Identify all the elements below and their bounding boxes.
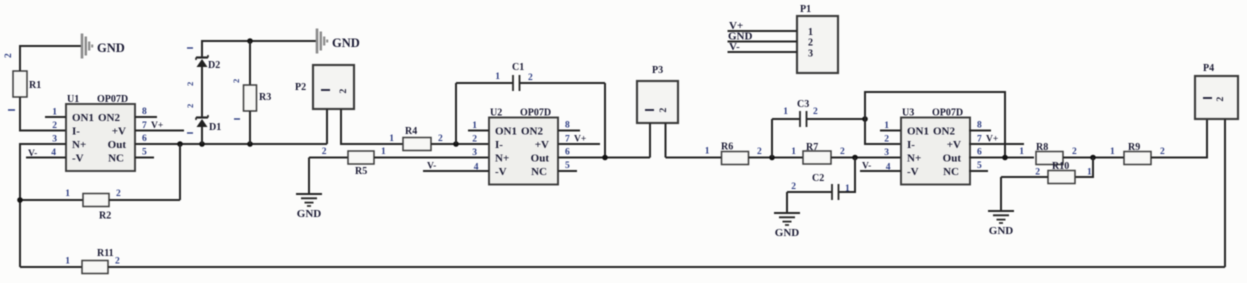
svg-text:2: 2 <box>116 189 121 199</box>
wire R6 to R7 <box>749 157 804 159</box>
svg-text:2: 2 <box>1035 168 1040 178</box>
svg-text:N+: N+ <box>72 139 86 151</box>
svg-text:+V: +V <box>947 139 961 151</box>
svg-text:R11: R11 <box>97 248 114 259</box>
resistor R2 (feedback) <box>20 199 83 201</box>
svg-text:2: 2 <box>4 53 14 58</box>
svg-text:I-: I- <box>72 126 80 138</box>
wire R5 to ground <box>308 158 310 195</box>
wire R2 up to output <box>179 144 181 200</box>
svg-text:R3: R3 <box>259 92 271 103</box>
svg-text:1: 1 <box>783 107 788 117</box>
junction dot top wire <box>247 38 253 44</box>
wire R9 to P4 <box>1151 119 1207 158</box>
svg-text:Out: Out <box>108 139 127 151</box>
junction dot U3 pin2 branch <box>862 116 868 122</box>
svg-text:2: 2 <box>1072 147 1077 157</box>
resistor R4 <box>403 138 431 151</box>
wire U3 output to R8 <box>969 157 1034 159</box>
resistor R5 <box>309 157 348 159</box>
svg-text:C2: C2 <box>812 173 824 184</box>
svg-text:U2: U2 <box>490 108 502 119</box>
connector P3 <box>637 81 678 123</box>
svg-text:R8: R8 <box>1036 142 1048 153</box>
svg-text:3: 3 <box>808 49 813 60</box>
svg-text:2: 2 <box>791 182 796 192</box>
power ground GND (below R10) <box>988 210 1014 212</box>
U1 pin5 stub <box>135 157 154 159</box>
svg-text:U3: U3 <box>902 108 914 119</box>
P2 pin1 wire <box>326 109 328 144</box>
svg-text:8: 8 <box>977 121 982 131</box>
svg-text:2: 2 <box>840 147 845 157</box>
svg-text:5: 5 <box>565 161 570 171</box>
junction dot R3 branch <box>247 141 253 147</box>
svg-text:1: 1 <box>1087 168 1092 178</box>
svg-text:6: 6 <box>565 148 570 158</box>
junction dot R10 branch <box>1090 155 1096 161</box>
resistor R7 <box>803 151 831 164</box>
svg-text:NC: NC <box>531 166 547 178</box>
power ground GND (below C2) <box>774 212 800 214</box>
junction dot feedback right <box>1002 155 1008 161</box>
svg-text:2: 2 <box>185 104 195 108</box>
svg-text:GND: GND <box>332 36 360 50</box>
junction dot C2 branch <box>852 155 858 161</box>
U3 pin8 stub <box>969 130 991 132</box>
svg-text:2: 2 <box>438 134 443 144</box>
svg-text:R10: R10 <box>1052 161 1069 172</box>
capacitor C3 <box>771 119 773 158</box>
wire U3 feedback over box <box>865 92 1005 158</box>
P3 pin2 wire <box>665 123 667 158</box>
svg-text:2: 2 <box>472 135 477 145</box>
svg-text:OP07D: OP07D <box>97 94 128 105</box>
svg-text:1: 1 <box>381 147 386 157</box>
svg-text:C1: C1 <box>512 62 524 73</box>
op-amp U1 <box>66 104 135 171</box>
svg-text:R5: R5 <box>355 166 367 177</box>
svg-text:2: 2 <box>52 121 57 131</box>
svg-text:P4: P4 <box>1203 63 1214 74</box>
junction dot feedback <box>177 141 183 147</box>
svg-text:1: 1 <box>1110 147 1115 157</box>
U1 pin1 stub <box>45 116 66 118</box>
svg-text:2: 2 <box>1160 147 1165 157</box>
P4 pin2 wire to bottom rail <box>1224 119 1226 267</box>
junction dot U2 input <box>453 141 459 147</box>
wire R10 to ground <box>1000 177 1002 211</box>
svg-text:-V: -V <box>72 153 84 165</box>
svg-text:1: 1 <box>845 184 850 194</box>
svg-text:I-: I- <box>495 139 503 151</box>
svg-text:8: 8 <box>142 107 147 117</box>
resistor R3 <box>249 41 251 85</box>
svg-text:N+: N+ <box>907 153 921 165</box>
svg-text:2: 2 <box>528 73 533 83</box>
U2 pin8 stub <box>558 130 580 132</box>
U1 pin8 stub <box>135 116 157 118</box>
svg-text:+V: +V <box>535 139 549 151</box>
svg-text:R6: R6 <box>721 142 733 153</box>
svg-text:6: 6 <box>142 134 147 144</box>
svg-text:OP07D: OP07D <box>520 108 551 119</box>
op-amp U2 <box>489 118 558 185</box>
svg-text:R2: R2 <box>99 211 111 222</box>
svg-text:ON1: ON1 <box>72 112 94 124</box>
junction dot C3 left <box>769 155 775 161</box>
svg-text:I-: I- <box>907 139 915 151</box>
U2 pin5 stub <box>558 170 577 172</box>
svg-text:2: 2 <box>757 147 762 157</box>
svg-text:2: 2 <box>884 135 889 145</box>
svg-text:2: 2 <box>185 82 195 86</box>
wire U1 output <box>135 143 327 145</box>
wire R8 to R9 <box>1063 157 1124 159</box>
svg-text:P2: P2 <box>295 82 306 93</box>
resistor R9 <box>1124 152 1151 165</box>
svg-text:D1: D1 <box>209 122 221 133</box>
junction dot left rail R2 <box>17 197 23 203</box>
svg-text:2: 2 <box>231 79 241 83</box>
svg-text:N+: N+ <box>495 153 509 165</box>
svg-text:2: 2 <box>339 89 349 94</box>
svg-text:1: 1 <box>65 189 70 199</box>
wire R1 bottom to U1 pin2 <box>20 97 66 131</box>
wire U2 output to R6 <box>558 157 650 159</box>
resistor R8 <box>1036 152 1063 165</box>
resistor R11 (bottom) <box>20 266 82 268</box>
junction dot C1 right <box>602 155 608 161</box>
svg-text:ON2: ON2 <box>98 112 121 124</box>
P2 pin2 wire to R4 <box>341 109 403 144</box>
svg-text:1: 1 <box>705 147 710 157</box>
svg-text:2: 2 <box>813 107 818 117</box>
U2 pin1 stub <box>468 130 489 132</box>
svg-text:GND: GND <box>97 41 125 55</box>
svg-text:OP07D: OP07D <box>932 108 963 119</box>
U3 pin5 stub <box>969 170 988 172</box>
wire C1 right to U2 output <box>604 83 606 158</box>
resistor R10 <box>1075 158 1093 178</box>
svg-text:NC: NC <box>108 153 124 165</box>
svg-text:R9: R9 <box>1128 142 1140 153</box>
svg-text:U1: U1 <box>67 94 79 105</box>
svg-text:Out: Out <box>531 153 550 165</box>
svg-text:R7: R7 <box>806 142 818 153</box>
svg-text:GND: GND <box>297 208 322 220</box>
svg-text:ON2: ON2 <box>933 126 956 138</box>
svg-text:2: 2 <box>808 38 813 49</box>
svg-text:P3: P3 <box>652 65 663 76</box>
power ground GND (below R5) <box>296 193 322 195</box>
svg-text:GND: GND <box>775 227 800 239</box>
connector P2 <box>313 65 354 109</box>
svg-text:D2: D2 <box>208 60 220 71</box>
svg-text:P1: P1 <box>800 4 811 15</box>
svg-text:-V: -V <box>495 166 507 178</box>
svg-text:ON1: ON1 <box>907 126 929 138</box>
svg-text:GND: GND <box>989 225 1014 237</box>
svg-text:1: 1 <box>791 147 796 157</box>
svg-text:C3: C3 <box>797 99 809 110</box>
svg-text:6: 6 <box>977 148 982 158</box>
svg-text:1: 1 <box>65 257 70 267</box>
svg-text:5: 5 <box>977 161 982 171</box>
U1 pin3 wire to left rail <box>20 144 66 267</box>
svg-text:3: 3 <box>472 148 477 158</box>
svg-text:2: 2 <box>1216 97 1226 102</box>
op-amp U3 <box>901 118 970 185</box>
svg-text:3: 3 <box>884 148 889 158</box>
diode D1 <box>201 127 203 145</box>
power ground GND (top-left) <box>81 34 84 59</box>
svg-text:1: 1 <box>495 72 500 82</box>
U3 pin1 stub <box>880 130 901 132</box>
diode D2 <box>201 67 203 118</box>
svg-text:-V: -V <box>907 166 919 178</box>
wire C3 to U3 pin2 <box>865 119 901 144</box>
connector P4 <box>1195 76 1238 119</box>
svg-text:R4: R4 <box>405 126 417 137</box>
svg-text:Out: Out <box>943 153 962 165</box>
junction dot diode branch <box>199 141 205 147</box>
svg-text:ON2: ON2 <box>521 126 544 138</box>
svg-text:1: 1 <box>389 134 394 144</box>
wire D2 top <box>202 41 316 58</box>
svg-text:2: 2 <box>115 257 120 267</box>
svg-text:2: 2 <box>322 147 327 157</box>
svg-text:1: 1 <box>1019 147 1024 157</box>
svg-text:ON1: ON1 <box>495 126 517 138</box>
svg-text:1: 1 <box>808 27 813 38</box>
svg-text:2: 2 <box>659 108 669 113</box>
connector P1 <box>797 16 838 73</box>
resistor R1 <box>13 71 27 97</box>
svg-text:R1: R1 <box>29 80 41 91</box>
wire R1 top to GND <box>20 46 81 71</box>
svg-text:8: 8 <box>565 121 570 131</box>
svg-text:+V: +V <box>112 126 126 138</box>
svg-text:5: 5 <box>142 148 147 158</box>
resistor R6 <box>722 152 749 165</box>
capacitor C1 (U2 feedback) <box>455 83 457 144</box>
power ground GND (top-middle) <box>316 29 319 54</box>
wire R7 to U3 <box>831 157 901 159</box>
svg-text:NC: NC <box>943 166 959 178</box>
capacitor C2 <box>839 158 856 193</box>
P3 pin1 wire <box>649 123 651 158</box>
